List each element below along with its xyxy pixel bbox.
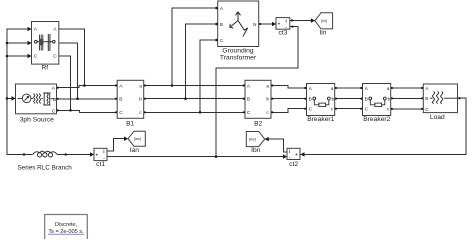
svg-text:Load: Load [430,114,445,121]
svg-text:B: B [53,97,56,103]
svg-text:b: b [266,97,269,103]
svg-text:i: i [289,149,290,154]
svg-text:3ph Source: 3ph Source [20,116,54,123]
svg-text:C: C [247,110,251,116]
svg-text:B: B [425,96,428,102]
svg-text:a: a [139,84,142,89]
svg-text:C: C [309,107,313,113]
svg-text:B: B [247,97,250,103]
svg-text:a: a [387,87,390,92]
svg-text:Ibn: Ibn [251,147,261,154]
svg-text:B: B [119,97,122,103]
svg-text:+: + [278,22,281,27]
svg-text:+: + [295,152,298,157]
svg-text:b: b [139,97,142,103]
svg-text:[Iin]: [Iin] [321,19,327,23]
svg-text:a: a [331,87,334,92]
svg-text:[Ian]: [Ian] [134,137,141,141]
svg-text:C: C [119,110,123,116]
svg-text:B2: B2 [254,121,262,128]
svg-text:B1: B1 [126,121,134,128]
svg-text:Breaker1: Breaker1 [307,116,334,123]
svg-text:Rf: Rf [41,64,48,71]
svg-text:Discrete,: Discrete, [55,222,78,228]
svg-text:B: B [220,22,223,28]
svg-text:B: B [365,96,368,102]
svg-text:C: C [53,54,57,60]
svg-text:C: C [220,38,224,44]
svg-text:C: C [365,107,369,113]
svg-text:Iin: Iin [319,29,326,36]
svg-text:b: b [332,96,335,102]
svg-text:i: i [103,149,104,154]
svg-text:Ian: Ian [130,147,140,154]
svg-text:Series RLC Branch: Series RLC Branch [17,164,72,171]
svg-text:b: b [388,96,391,102]
svg-text:C: C [34,54,38,60]
svg-text:C: C [52,108,56,114]
svg-text:Transformer: Transformer [220,55,257,62]
svg-text:a: a [266,84,269,89]
svg-text:C: C [425,107,429,113]
svg-text:N: N [253,22,257,28]
svg-text:ct2: ct2 [289,161,298,168]
svg-text:Breaker2: Breaker2 [363,116,390,123]
svg-text:B: B [309,96,312,102]
svg-text:[Ibn]: [Ibn] [249,138,256,142]
svg-text:ct1: ct1 [96,161,105,168]
svg-text:ct3: ct3 [279,29,288,36]
svg-text:i: i [286,18,287,23]
svg-text:+: + [96,152,99,157]
